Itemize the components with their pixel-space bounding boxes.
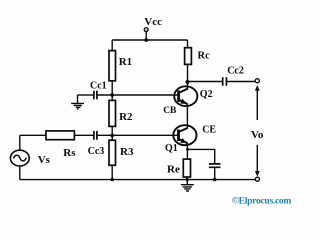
svg-text:CB: CB xyxy=(163,106,177,116)
svg-text:R3: R3 xyxy=(120,146,134,158)
svg-text:Cc1: Cc1 xyxy=(90,81,107,92)
svg-text:Rs: Rs xyxy=(63,147,76,159)
svg-text:Q1: Q1 xyxy=(165,143,178,154)
svg-text:Rc: Rc xyxy=(198,50,211,61)
svg-text:CE: CE xyxy=(202,125,216,136)
svg-text:Vs: Vs xyxy=(38,154,51,166)
svg-text:Q2: Q2 xyxy=(200,89,213,100)
svg-text:Re: Re xyxy=(167,164,180,176)
svg-text:Cc3: Cc3 xyxy=(88,146,105,157)
svg-text:Vcc: Vcc xyxy=(144,16,162,28)
svg-text:R2: R2 xyxy=(119,111,133,123)
svg-text:Vo: Vo xyxy=(251,129,264,141)
svg-text:©Elprocus.com: ©Elprocus.com xyxy=(232,195,292,206)
svg-text:R1: R1 xyxy=(119,56,132,68)
svg-text:Cc2: Cc2 xyxy=(227,66,244,77)
